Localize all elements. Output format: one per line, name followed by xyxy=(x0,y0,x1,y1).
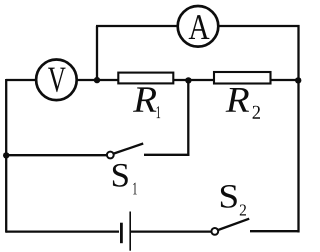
node A junction dot xyxy=(94,77,100,83)
resistor R2 xyxy=(214,72,271,84)
node B junction dot xyxy=(185,77,191,83)
node D junction dot xyxy=(3,152,9,158)
wire switch S1 right segment xyxy=(144,154,189,156)
wire switch S2 right segment to bottom-right corner xyxy=(250,230,300,232)
switch S2 xyxy=(211,219,249,235)
node C junction dot xyxy=(295,77,301,83)
battery xyxy=(121,212,130,251)
voltmeter V xyxy=(36,60,77,101)
switch S1 xyxy=(107,144,143,159)
wire node D to switch S1 xyxy=(6,154,107,156)
wire node B down to switch S1 branch xyxy=(187,80,189,156)
wire top-left vertical from node A up to top rail xyxy=(96,26,98,80)
wire right edge vertical xyxy=(297,25,299,233)
label R2 xyxy=(226,88,260,119)
wire voltmeter to node A xyxy=(77,79,99,81)
resistor R1 xyxy=(118,73,173,84)
label S1 xyxy=(113,164,137,195)
wire resistor R2 to node C xyxy=(270,79,299,81)
wire node B to resistor R2 xyxy=(188,79,215,81)
wire left edge horizontal to voltmeter xyxy=(6,79,36,81)
wire left edge vertical xyxy=(5,79,7,233)
label S2 xyxy=(221,185,246,216)
wire node A to resistor R1 xyxy=(97,79,119,81)
ammeter A xyxy=(178,6,219,47)
wire battery to switch S2 xyxy=(131,230,212,232)
label R1 xyxy=(133,87,160,118)
wire top rail right of ammeter xyxy=(219,25,300,27)
wire bottom rail left to battery xyxy=(6,230,119,232)
wire top rail left of ammeter xyxy=(96,25,177,27)
wire resistor R1 to node B xyxy=(173,79,190,81)
